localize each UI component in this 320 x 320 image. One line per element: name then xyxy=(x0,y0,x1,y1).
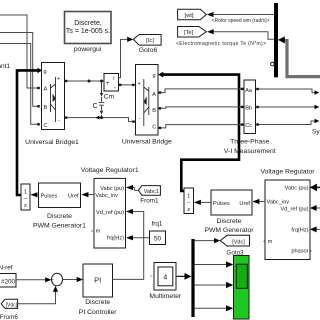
svg-text:-: - xyxy=(58,118,60,124)
svg-text:Uref: Uref xyxy=(239,201,250,207)
svg-text:B: B xyxy=(44,105,48,111)
svg-text:-: - xyxy=(114,84,116,91)
green scope block xyxy=(234,256,250,320)
svg-text:Vd_ref (pu): Vd_ref (pu) xyxy=(96,210,124,216)
gray machine bus wire into bus selector xyxy=(284,41,320,77)
wire bus-selector out1 to [wt] xyxy=(213,14,274,16)
Voltage Regulator block (2nd) xyxy=(260,168,315,259)
svg-text:Vd_ref (pu): Vd_ref (pu) xyxy=(281,206,309,212)
svg-text:g: g xyxy=(153,73,156,79)
svg-text:From6: From6 xyxy=(0,314,18,320)
svg-text:=: = xyxy=(150,273,153,278)
svg-text:Cm: Cm xyxy=(104,94,115,101)
svg-text:frq(Hz): frq(Hz) xyxy=(107,235,124,241)
svg-text:Cc: Cc xyxy=(245,123,252,129)
svg-text:Vabc_inv: Vabc_inv xyxy=(95,193,118,199)
Universal Bridge block (2nd, mirrored) xyxy=(136,65,159,136)
svg-text:[Te]: [Te] xyxy=(184,30,194,36)
svg-text:Uref: Uref xyxy=(68,193,79,199)
demux bar xyxy=(191,239,194,317)
svg-text:m: m xyxy=(268,239,273,245)
wire 50 to frq(Hz) reg1 xyxy=(133,237,150,239)
svg-text:<Electromagnetic torque Te (N: <Electromagnetic torque Te (N*m)> xyxy=(176,41,266,47)
powergui block xyxy=(65,12,112,54)
svg-text:frq1: frq1 xyxy=(152,220,163,227)
Three-Phase V-I Measurement block xyxy=(224,80,276,155)
svg-text:A: A xyxy=(152,92,156,98)
svg-text:+: + xyxy=(106,80,110,87)
svg-text:+: + xyxy=(57,77,60,83)
svg-text:Universal Bridge: Universal Bridge xyxy=(122,139,172,146)
wire #200 to sum xyxy=(16,279,46,281)
svg-text:Three-Phase: Three-Phase xyxy=(230,139,270,146)
svg-text:1: 1 xyxy=(24,189,27,195)
wire Pulses1 to 1/z1 xyxy=(37,194,39,196)
svg-text:Ts = 1e-005 s.: Ts = 1e-005 s. xyxy=(66,28,110,35)
svg-text:B: B xyxy=(152,108,156,114)
svg-text:g: g xyxy=(44,69,47,75)
svg-text:Pulses: Pulses xyxy=(41,193,58,199)
wire B from left edge to Universal Bridge1 port B xyxy=(0,33,39,107)
svg-text:[wt]: [wt] xyxy=(184,13,193,19)
svg-text:Bb: Bb xyxy=(245,105,252,111)
top DC rail bridge1+ to Cm xyxy=(65,80,104,82)
svg-text:Voltage Regulator1: Voltage Regulator1 xyxy=(81,167,139,174)
svg-text:Aa: Aa xyxy=(245,88,253,94)
wire A from left edge to Universal Bridge1 port A xyxy=(0,15,39,88)
svg-text:Discrete: Discrete xyxy=(85,299,110,306)
svg-text:PI Controller: PI Controller xyxy=(79,309,118,316)
svg-text:Voltage Regulator: Voltage Regulator xyxy=(260,168,315,175)
wire reg1 Vabc_inv to Uref1 xyxy=(88,194,94,196)
V-I outputs to machine at right edge xyxy=(256,89,315,125)
wire From6 up into sum xyxy=(18,292,56,304)
svg-text:Multimeter: Multimeter xyxy=(149,293,181,300)
Goto [Te] tag xyxy=(178,27,207,38)
bus selector bar xyxy=(274,3,278,77)
svg-text:[Vdc]: [Vdc] xyxy=(232,239,245,245)
svg-text:‹: ‹ xyxy=(263,239,265,245)
svg-text:m: m xyxy=(96,228,101,234)
bridge2 internal igbt icon xyxy=(144,79,149,126)
frq1 constant block 50 xyxy=(150,220,166,244)
capacitor C branch xyxy=(99,81,105,118)
wire reg2 Vabc_inv to Uref2 xyxy=(259,201,265,203)
bridge1 internal igbt icon xyxy=(51,77,56,122)
Discrete PWM Generator block (2nd) xyxy=(204,190,254,234)
svg-text:-: - xyxy=(52,276,54,283)
svg-text:50: 50 xyxy=(154,236,162,243)
wire multimeter to demux bar xyxy=(176,275,185,277)
svg-text:powergui: powergui xyxy=(74,46,102,53)
svg-text:C: C xyxy=(93,103,98,110)
Discrete PI Controller block xyxy=(79,264,118,316)
Cm measurement block xyxy=(104,74,119,101)
wire From1 to Vabc(pu) xyxy=(133,188,139,191)
svg-text:C: C xyxy=(152,124,156,130)
constant #200 block (cut at edge) xyxy=(0,274,16,288)
svg-text:PWM Generator1: PWM Generator1 xyxy=(33,222,86,229)
Discrete PWM Generator1 block xyxy=(33,183,86,229)
reg2 input wires from right edge xyxy=(310,186,320,188)
svg-text:Vabc (pu): Vabc (pu) xyxy=(285,186,309,192)
svg-text:[Vdc]: [Vdc] xyxy=(6,302,18,308)
thick gate wire from 1/z1 up to bridge1 g xyxy=(17,70,38,195)
svg-text:frq(Hz): frq(Hz) xyxy=(291,228,308,234)
Voltage Regulator1 block xyxy=(81,167,139,248)
unit delay 1/z1 xyxy=(21,184,30,210)
svg-text:N-ref: N-ref xyxy=(0,265,13,272)
svg-text:1: 1 xyxy=(187,193,190,199)
svg-text:From1: From1 xyxy=(140,197,159,204)
svg-text:Discrete: Discrete xyxy=(217,218,242,225)
svg-text:Universal Bridge1: Universal Bridge1 xyxy=(25,139,79,146)
svg-text:Vabc_inv: Vabc_inv xyxy=(267,200,290,206)
svg-text:‹: ‹ xyxy=(310,249,312,255)
unconnected output circle on bus selector xyxy=(271,62,275,66)
svg-text:i: i xyxy=(113,76,114,82)
svg-text:Pulses: Pulses xyxy=(213,201,230,207)
sum junction circle xyxy=(52,273,63,289)
wire sum to PI xyxy=(63,279,78,281)
svg-text:+: + xyxy=(138,81,141,87)
svg-text:[Ic]: [Ic] xyxy=(146,38,154,44)
svg-text:Constant1: Constant1 xyxy=(0,63,10,70)
svg-text:4: 4 xyxy=(163,274,167,281)
svg-text:Vabc (pu): Vabc (pu) xyxy=(100,186,124,192)
svg-text:PI: PI xyxy=(94,276,101,285)
svg-text:-: - xyxy=(139,116,141,122)
unit delay 1/z2 xyxy=(184,188,194,214)
wire Pulses2 to 1/z2 xyxy=(201,201,212,203)
Multimeter block xyxy=(149,263,181,301)
svg-text:Discrete: Discrete xyxy=(47,213,72,220)
From6 tag [Vdc] xyxy=(0,299,18,320)
svg-text:phasor: phasor xyxy=(291,249,308,255)
wire bus-selector out2 to [Te] xyxy=(214,32,275,40)
wire demux to Goto3 [Vdc] xyxy=(195,240,215,242)
wire PI output up to reg1 Vd_ref xyxy=(113,212,144,280)
demux outputs to scope xyxy=(195,265,227,309)
svg-text:z: z xyxy=(187,207,190,213)
svg-text:V-I Measurement: V-I Measurement xyxy=(224,148,276,155)
port squares bridge1 left xyxy=(37,87,40,126)
svg-text:Synchron: Synchron xyxy=(312,129,320,136)
svg-text:Discrete,: Discrete, xyxy=(74,20,102,27)
wire Cm i-output up to Goto6 xyxy=(119,39,128,77)
wire Cm output to bridge2 + xyxy=(119,84,136,86)
wires bridge2 A,B,C to V-I Aa,Bb,Cc xyxy=(160,89,245,128)
Goto [wt] tag xyxy=(178,9,207,19)
svg-text:<Rotor speed wm (rad/s)>: <Rotor speed wm (rad/s)> xyxy=(212,18,270,24)
svg-text:C: C xyxy=(44,123,48,129)
svg-text:A: A xyxy=(44,87,48,93)
wire C from left edge to Universal Bridge1 port C xyxy=(0,44,39,125)
svg-text:‹: ‹ xyxy=(91,228,93,234)
Goto6 tag [Ic] xyxy=(133,35,161,55)
svg-text:z: z xyxy=(24,203,27,209)
svg-text:Goto6: Goto6 xyxy=(139,47,158,54)
svg-text:-: - xyxy=(55,282,57,289)
svg-text:#200: #200 xyxy=(1,278,16,285)
bottom DC rail bridge1- to bridge2- xyxy=(65,118,136,122)
Goto3 tag [Vdc] xyxy=(220,235,249,256)
Universal Bridge1 block xyxy=(42,63,65,130)
svg-text:Vabc1: Vabc1 xyxy=(144,189,159,195)
thick gate wire from 1/z2 up-around to bridge2 g xyxy=(163,75,239,191)
From1 tag Vabc1 xyxy=(138,186,160,205)
svg-text:PWM Generator: PWM Generator xyxy=(204,227,254,234)
